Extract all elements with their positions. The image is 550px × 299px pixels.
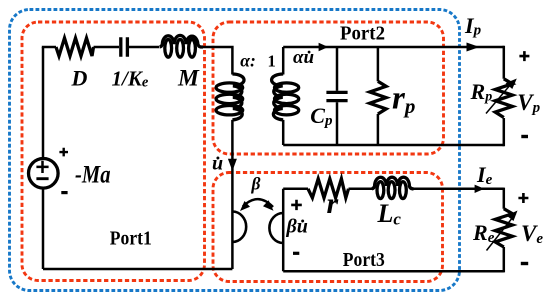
minus outside source — [61, 191, 67, 194]
current arrow u-dot (down) — [228, 159, 237, 171]
wire: Port2 top rail — [283, 46, 504, 49]
svg-text:M: M — [177, 65, 200, 91]
Port3 red dashed box — [213, 173, 443, 282]
svg-text:αu̇: αu̇ — [293, 47, 314, 68]
wire: primary bottom long vertical — [231, 120, 234, 269]
Port3 top rail to r — [283, 188, 308, 191]
capacitor Cp — [336, 47, 339, 91]
outer blue dotted boundary box — [10, 10, 460, 291]
load Rp leads — [503, 46, 506, 146]
resistor rp — [377, 47, 380, 81]
svg-text:u̇: u̇ — [212, 153, 223, 175]
wire: M to transformer primary corner — [203, 47, 232, 75]
Rp variable arrow — [486, 84, 511, 114]
Port1 red dashed box — [22, 22, 205, 281]
inductor Lc — [372, 177, 414, 189]
minus inside source — [36, 177, 48, 180]
svg-text:Port3: Port3 — [343, 249, 385, 271]
inductor M (3 humps + 3 loop ellipses) — [160, 35, 204, 47]
svg-text:-Ma: -Ma — [75, 162, 111, 189]
voltage source circle — [29, 159, 59, 189]
beta curved double arrow — [243, 199, 273, 207]
svg-text:Port1: Port1 — [110, 228, 152, 250]
wire: D to capacitor — [94, 46, 120, 49]
minus bottom-right Port3 load — [521, 262, 528, 265]
gyrator left semicircle — [232, 212, 246, 242]
plus inside source — [36, 161, 48, 173]
svg-text:Port2: Port2 — [340, 23, 385, 45]
plus outside source — [59, 148, 68, 157]
transformer secondary coil (bulges left, loops right) — [272, 74, 284, 120]
wire: secondary bottom lead — [282, 120, 285, 145]
Re variable arrow — [487, 217, 514, 251]
wire Lc to Re corner — [413, 188, 504, 191]
label - inside Port3 — [293, 252, 299, 255]
wire: capacitor to inductor M — [127, 46, 159, 49]
svg-text:Ie: Ie — [476, 162, 493, 188]
svg-text:Ip: Ip — [464, 13, 482, 39]
Port3 inner left vertical — [282, 189, 285, 271]
svg-text:Rp: Rp — [470, 79, 493, 105]
svg-text:D: D — [71, 66, 88, 91]
wire: secondary top lead — [282, 47, 285, 75]
svg-text:β: β — [251, 174, 261, 194]
arrow alpha-u-dot — [319, 43, 329, 51]
gyrator right semicircle — [269, 213, 283, 243]
plus top-right Port2 load — [519, 51, 529, 61]
svg-text:r: r — [327, 187, 339, 220]
label + inside Port3 — [291, 200, 302, 210]
svg-text:1: 1 — [268, 52, 276, 71]
svg-text:Vp: Vp — [517, 90, 540, 116]
wire r to Lc — [349, 188, 373, 191]
transformer primary coil (bulges right, loops left) — [232, 74, 244, 120]
resistor D — [56, 38, 94, 56]
Port3 bottom rail — [283, 270, 504, 273]
wire: Port2 bottom rail — [283, 144, 504, 147]
resistor Re zigzag — [495, 209, 512, 247]
svg-text:Ve: Ve — [521, 221, 543, 247]
svg-text:Lc: Lc — [377, 199, 402, 229]
svg-text:βu̇: βu̇ — [286, 216, 308, 238]
svg-text:rp: rp — [392, 81, 415, 119]
load Re leads — [503, 188, 506, 273]
svg-text:Cp: Cp — [310, 103, 333, 129]
svg-text:1/Ke: 1/Ke — [112, 67, 149, 91]
capacitor 1/Ke plates — [121, 37, 128, 56]
resistor Rp zigzag — [495, 79, 512, 118]
svg-text:Re: Re — [472, 220, 495, 246]
Port2 red dashed box — [213, 22, 444, 154]
svg-text:α:: α: — [240, 51, 256, 71]
current arrow Ie — [475, 185, 485, 193]
wire: top rail segment left — [42, 46, 56, 49]
minus bottom-right Port2 load — [521, 135, 528, 138]
resistor r — [308, 179, 349, 198]
wire: Port1 left vertical (below source) — [42, 188, 45, 269]
plus top-right Port3 load — [518, 193, 528, 203]
wire: Port1 left vertical (top of source) — [42, 47, 45, 159]
current arrow Ip — [467, 43, 480, 52]
wire: Port1 bottom rail — [43, 268, 232, 271]
